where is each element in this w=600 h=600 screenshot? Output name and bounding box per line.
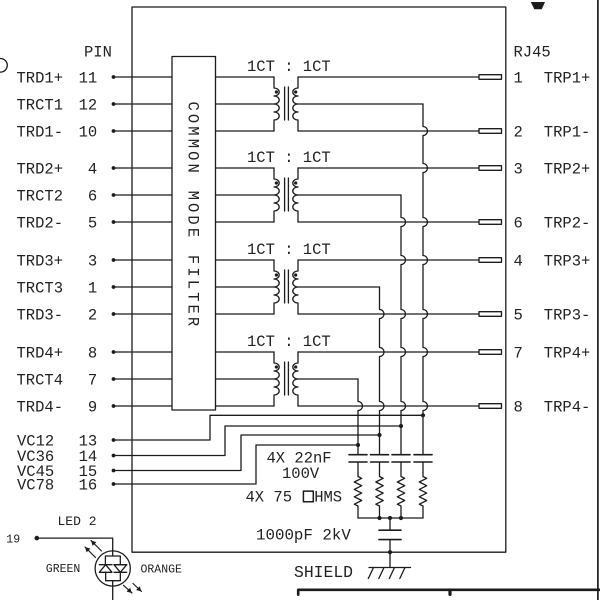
wire filter to T4 primary bottom [216,405,275,407]
transformer T2 primary phase dot [275,181,278,184]
svg-text:LED 2: LED 2 [58,514,97,529]
LED D2 emission arrows upper-left [85,547,96,558]
junction dot C5 lead on connector outline [388,550,392,554]
wire center-tap bus 2 (x=401) with crossover hops [401,195,406,455]
junction dot VC78 on bus [356,443,360,447]
svg-text:2: 2 [514,124,523,142]
junction dot VC45 on bus [377,433,381,437]
junction dot VC12 on bus [421,413,425,417]
svg-text:16: 16 [79,477,98,495]
wire pin 4 to filter [114,167,173,169]
RJ45 contact pin 4 [479,258,502,263]
transformer T2 secondary winding [293,168,298,222]
wire filter to T3 primary bottom [216,313,275,315]
svg-text:TRD3+: TRD3+ [17,253,64,271]
svg-text:1CT : 1CT: 1CT : 1CT [247,333,331,351]
wire T3 secondary center tap to bus [298,286,380,288]
svg-text:1CT : 1CT: 1CT : 1CT [247,149,331,167]
svg-text:6: 6 [88,188,97,206]
wire T2 secondary bottom to RJ45 contact [298,221,479,223]
node dot pin 9 [112,404,116,408]
LED D2 green diode (up) [99,564,112,566]
transformer T2 primary winding [274,168,279,222]
svg-text:RJ45: RJ45 [514,44,551,62]
svg-text:HMS: HMS [314,488,342,506]
svg-text:TRCT4: TRCT4 [17,372,64,390]
wire T1 secondary top to RJ45 contact [298,76,479,78]
wire center-tap bus 1 (x=423) with crossover hops [423,104,428,455]
wire resistor commons [358,517,423,519]
svg-text:TRP4-: TRP4- [544,399,591,417]
capacitor C5 1000pF 2kV lead [389,518,391,530]
svg-text:9: 9 [88,399,97,417]
svg-text:PIN: PIN [84,44,112,62]
svg-text:3: 3 [88,253,97,271]
wire T4 secondary top to RJ45 contact [298,351,479,353]
wire LED D2 cathode stem to edge [112,581,114,600]
transformer T3 primary phase dot [275,273,278,276]
svg-text:12: 12 [79,97,98,115]
transformer T2 secondary phase dot [294,181,297,184]
transformer T4 primary winding [274,352,279,406]
transformer T1 secondary phase dot [294,90,297,93]
svg-text:5: 5 [88,215,97,233]
svg-text:VC78: VC78 [17,477,54,495]
LED D2 bottom rail [106,572,121,580]
capacitor C5 1000pF 2kV [379,529,401,531]
svg-text:TRCT2: TRCT2 [17,188,64,206]
connector polarity mark (top edge) [531,2,545,9]
svg-text:7: 7 [88,372,97,390]
svg-text:ORANGE: ORANGE [141,564,183,577]
svg-text:11: 11 [79,70,98,88]
node dot pin 12 [112,102,116,106]
node dot pin 16 [112,482,116,486]
node dot pin 2 [112,312,116,316]
svg-text:TRP2+: TRP2+ [544,161,591,179]
svg-text:TRP3+: TRP3+ [544,253,591,271]
svg-text:10: 10 [79,124,98,142]
junction dot VC36 on bus [399,424,403,428]
wire T4 secondary center tap to bus [298,378,358,380]
wire filter to T2 primary center tap [216,194,275,196]
junction dot R3 bottom [399,516,403,520]
wire filter to T4 primary top [216,351,275,353]
wire T1 secondary bottom to RJ45 contact [298,130,479,132]
svg-text:COMMON MODE FILTER: COMMON MODE FILTER [184,102,202,330]
svg-text:1000pF 2kV: 1000pF 2kV [256,527,351,545]
transformer T1 core [284,87,286,120]
RJ45 contact pin 8 [479,404,502,409]
transformer T2 core [284,178,286,211]
resistor R4 75 ohms [419,462,426,518]
transformer T4 secondary winding [293,352,298,406]
wire pin 8 to filter [114,351,173,353]
svg-text:100V: 100V [282,465,320,483]
wire T4 secondary bottom to RJ45 contact [298,405,479,407]
capacitor C1 22nF [349,454,367,456]
LED D2 top rail [105,556,120,565]
svg-text:TRD1-: TRD1- [17,124,64,142]
node dot pin 7 [112,377,116,381]
wire pin 1 to filter [114,286,173,288]
transformer T3 secondary winding [293,260,298,314]
LED D2 emission arrows lower-right [124,585,133,593]
node dot pin 13 [112,438,116,442]
svg-text:TRCT1: TRCT1 [17,97,64,115]
node dot pin 8 [112,350,116,354]
svg-text:GREEN: GREEN [46,563,81,576]
wire pin 6 to filter [114,194,173,196]
wire filter to T2 primary bottom [216,221,275,223]
svg-text:1CT : 1CT: 1CT : 1CT [247,58,331,76]
svg-text:5: 5 [514,307,523,325]
svg-text:TRP4+: TRP4+ [544,345,591,363]
transformer T3 core [284,270,286,303]
wire T1 secondary center tap to bus [298,103,423,105]
wire center-tap bus 3 (x=379.5) with crossover hops [380,287,385,455]
RJ45 contact pin 1 [479,75,502,80]
capacitor C4 22nF [414,454,432,456]
svg-text:1: 1 [88,280,97,298]
common mode filter FL1 [172,57,216,411]
node dot pin 6 [112,193,116,197]
transformer T4 secondary phase dot [294,365,297,368]
wire pin 13 (VC12) to center-tap bus [114,415,424,440]
wire T3 secondary top to RJ45 contact [298,259,479,261]
wire filter to T4 primary center tap [216,378,275,380]
node marker circle (left edge, clipped) [0,59,7,73]
wire T3 secondary bottom to RJ45 contact [298,313,479,315]
svg-text:TRD4+: TRD4+ [17,345,64,363]
RJ45 contact pin 7 [479,350,502,355]
resistor R1 75 ohms [354,462,361,518]
wire pin 11 to filter [114,76,173,78]
resistor R2 75 ohms [376,462,383,518]
wire filter to T1 primary bottom [216,130,275,132]
LED D2 orange diode (down) [114,564,127,566]
wire pin 10 to filter [114,130,173,132]
svg-text:4: 4 [514,253,523,271]
connector body outline J1 [132,7,506,552]
wire pin 15 (VC45) to center-tap bus [114,435,380,471]
svg-text:4: 4 [88,161,97,179]
capacitor C3 22nF [392,454,410,456]
svg-text:4X 75: 4X 75 [246,488,293,506]
RJ45 contact pin 5 [479,312,502,317]
wire filter to T3 primary center tap [216,286,275,288]
svg-text:TRP3-: TRP3- [544,307,591,325]
wire filter to T1 primary center tap [216,103,275,105]
svg-text:TRP1+: TRP1+ [544,70,591,88]
wire filter to T2 primary top [216,167,275,169]
shield chassis ground [369,567,411,569]
svg-text:8: 8 [88,345,97,363]
wire pin 3 to filter [114,259,173,261]
wire filter to T1 primary top [216,76,275,78]
wire C5 to shield ground [389,540,391,568]
transformer T3 secondary phase dot [294,273,297,276]
LED D2 bicolor body circle [95,551,130,586]
svg-text:TRP1-: TRP1- [544,124,591,142]
wire pin 14 (VC36) to center-tap bus [114,426,402,456]
node dot pin 4 [112,166,116,170]
wire T2 secondary top to RJ45 contact [298,167,479,169]
transformer T4 primary phase dot [275,365,278,368]
RJ45 contact pin 3 [479,166,502,171]
svg-text:TRD2-: TRD2- [17,215,64,233]
RJ45 contact pin 6 [479,220,502,225]
node dot pin 19 [35,536,40,541]
svg-text:TRD3-: TRD3- [17,307,64,325]
svg-text:8: 8 [514,399,523,417]
node dot pin 1 [112,285,116,289]
node dot pin 14 [112,454,116,458]
wire T2 secondary center tap to bus [298,194,401,196]
wire pin 5 to filter [114,221,173,223]
wire pin 7 to filter [114,378,173,380]
svg-text:19: 19 [6,533,20,546]
wire pin 19 to LED D2 [37,538,113,556]
svg-text:TRCT3: TRCT3 [17,280,64,298]
capacitor C2 22nF [371,454,389,456]
svg-text:SHIELD: SHIELD [294,563,353,582]
svg-text:TRP2-: TRP2- [544,215,591,233]
wire pin 2 to filter [114,313,173,315]
svg-text:6: 6 [514,215,523,233]
transformer T3 primary winding [274,260,279,314]
transformer T1 primary phase dot [275,90,278,93]
transformer T4 core [284,362,286,395]
svg-text:TRD4-: TRD4- [17,399,64,417]
wire filter to T3 primary top [216,259,275,261]
node dot pin 10 [112,129,116,133]
wire center-tap bus 4 (x=358) with crossover hops [358,379,363,455]
svg-text:2: 2 [88,307,97,325]
wire pin 9 to filter [114,405,173,407]
node dot pin 5 [112,220,116,224]
node dot pin 15 [112,469,116,473]
transformer T1 secondary winding [293,77,298,131]
svg-text:7: 7 [514,345,523,363]
svg-text:3: 3 [514,161,523,179]
junction dot R2 bottom [377,516,381,520]
svg-text:1CT : 1CT: 1CT : 1CT [247,241,331,259]
node dot pin 11 [112,75,116,79]
svg-text:TRD2+: TRD2+ [17,161,64,179]
node dot pin 3 [112,258,116,262]
resistor R3 75 ohms [397,462,404,518]
wire pin 12 to filter [114,103,173,105]
junction dot C5 top [388,516,392,520]
RJ45 contact pin 2 [479,129,502,134]
wire pin 16 (VC78) to center-tap bus [114,445,359,484]
transformer T1 primary winding [274,77,279,131]
svg-text:TRD1+: TRD1+ [17,70,64,88]
svg-text:1: 1 [514,70,523,88]
